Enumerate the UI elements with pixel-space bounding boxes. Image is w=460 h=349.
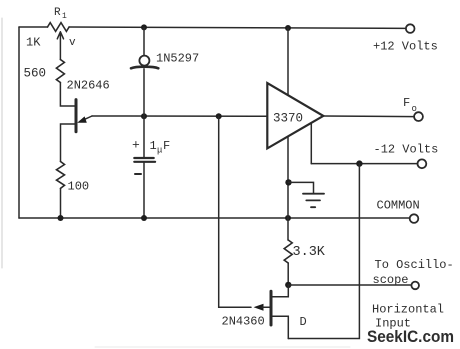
UJT emitter diagonal wire [80, 116, 92, 121]
svg-text:+12 Volts: +12 Volts [373, 40, 438, 54]
wire emitter line to op-amp input [92, 115, 267, 117]
terminal -12 Volts [418, 159, 427, 168]
op-amp U1 3370 triangle [267, 83, 323, 148]
wire to ground symbol [289, 182, 314, 193]
wire -12V rail [311, 163, 417, 165]
capacitor C1 top plate [134, 157, 153, 159]
wire emitter node down to FET gate [219, 116, 251, 307]
wire capacitor branch upper [143, 116, 145, 157]
resistor 100 zigzag [57, 162, 65, 189]
wire top rail right segment [69, 27, 406, 28]
node dot -12V/FET source branch [356, 160, 362, 166]
ground bar 1 [303, 193, 324, 195]
svg-text:3.3K: 3.3K [293, 245, 326, 260]
wire FET source lead [272, 316, 288, 338]
wire op-amp ground pin feed [287, 137, 289, 218]
wire op-amp output [323, 115, 414, 118]
wire 3.3K top lead [287, 218, 289, 240]
label - of capacitor [135, 173, 141, 175]
node dot common/3.3K [285, 215, 291, 221]
svg-text:Horizontal: Horizontal [372, 303, 444, 317]
svg-text:scope: scope [373, 273, 409, 287]
wire op-amp V- feed [310, 123, 312, 164]
wire UJT base1 lead [61, 124, 75, 162]
wire op-amp V+ feed [287, 28, 289, 95]
transistor Q1 2N2646 UJT bar [75, 100, 78, 132]
resistor R1 (1K pot) zigzag [48, 23, 70, 32]
svg-text:1N5297: 1N5297 [156, 52, 199, 66]
svg-text:D: D [300, 315, 307, 329]
wire top rail left segment [19, 26, 48, 28]
node dot top rail / op-amp V+ branch [285, 25, 291, 31]
wire to oscilloscope terminal [288, 284, 411, 286]
resistor 560 zigzag [56, 60, 64, 83]
node dot common/100 [58, 215, 64, 221]
svg-text:-12 Volts: -12 Volts [374, 143, 439, 157]
diode D1 1N5297 circle [139, 56, 149, 66]
node dot 3.3K/FET drain/scope [285, 282, 291, 288]
wire FET source to -12V [288, 164, 359, 339]
svg-text:F: F [163, 139, 170, 153]
transistor Q2 2N4360 channel bar [270, 291, 273, 325]
svg-text:F: F [403, 96, 410, 110]
svg-text:2N4360: 2N4360 [222, 315, 265, 329]
svg-text:+: + [132, 138, 140, 153]
terminal To Oscilloscope [411, 282, 419, 290]
svg-text:1K: 1K [26, 36, 41, 50]
FET gate arrowhead [254, 304, 264, 311]
wire diode branch upper [143, 27, 145, 55]
wire capacitor branch lower [143, 163, 145, 218]
svg-text:3370: 3370 [273, 112, 303, 126]
node dot common/cap [141, 215, 147, 221]
UJT emitter arrowhead [77, 116, 87, 122]
svg-text:COMMON: COMMON [377, 199, 420, 213]
terminal Fo [414, 112, 423, 121]
node dot ground junction [285, 179, 291, 185]
wire common rail [19, 217, 410, 219]
capacitor C1 bottom plate [134, 161, 155, 163]
svg-text:1: 1 [62, 12, 67, 21]
ground bar 3 [311, 206, 315, 208]
scan edge artifact bottom [95, 346, 350, 348]
svg-text:100: 100 [68, 180, 90, 194]
svg-text:R: R [54, 7, 61, 19]
svg-text:2N2646: 2N2646 [67, 79, 110, 93]
wire FET drain lead [272, 285, 288, 297]
node dot top rail / diode branch [141, 24, 147, 30]
node dot emitter/diode/cap junction [141, 113, 147, 119]
scan edge artifact left [1, 18, 3, 268]
terminal +12 Volts [406, 24, 415, 33]
diode D1 bar [131, 67, 158, 69]
svg-text:SeekIC.com: SeekIC.com [367, 327, 454, 346]
wire 3.3K bottom lead [287, 263, 289, 285]
svg-text:560: 560 [24, 67, 47, 81]
resistor 3.3K zigzag [284, 240, 292, 263]
wire gate arrowhead to channel [262, 306, 269, 308]
wire 100 bottom lead [60, 188, 62, 218]
wire diode branch lower [143, 69, 145, 116]
terminal COMMON [410, 214, 419, 223]
svg-text:o: o [412, 104, 417, 114]
node dot emitter/gate-feed junction [216, 113, 222, 119]
wire 560 bottom to UJT base2 [60, 83, 74, 107]
ground bar 2 [306, 199, 320, 201]
wire left rail [18, 27, 20, 218]
svg-text:1: 1 [150, 139, 157, 153]
svg-text:v: v [69, 37, 76, 49]
svg-text:To Oscillo-: To Oscillo- [375, 258, 454, 272]
pot wiper arrow of R1 [57, 32, 63, 60]
